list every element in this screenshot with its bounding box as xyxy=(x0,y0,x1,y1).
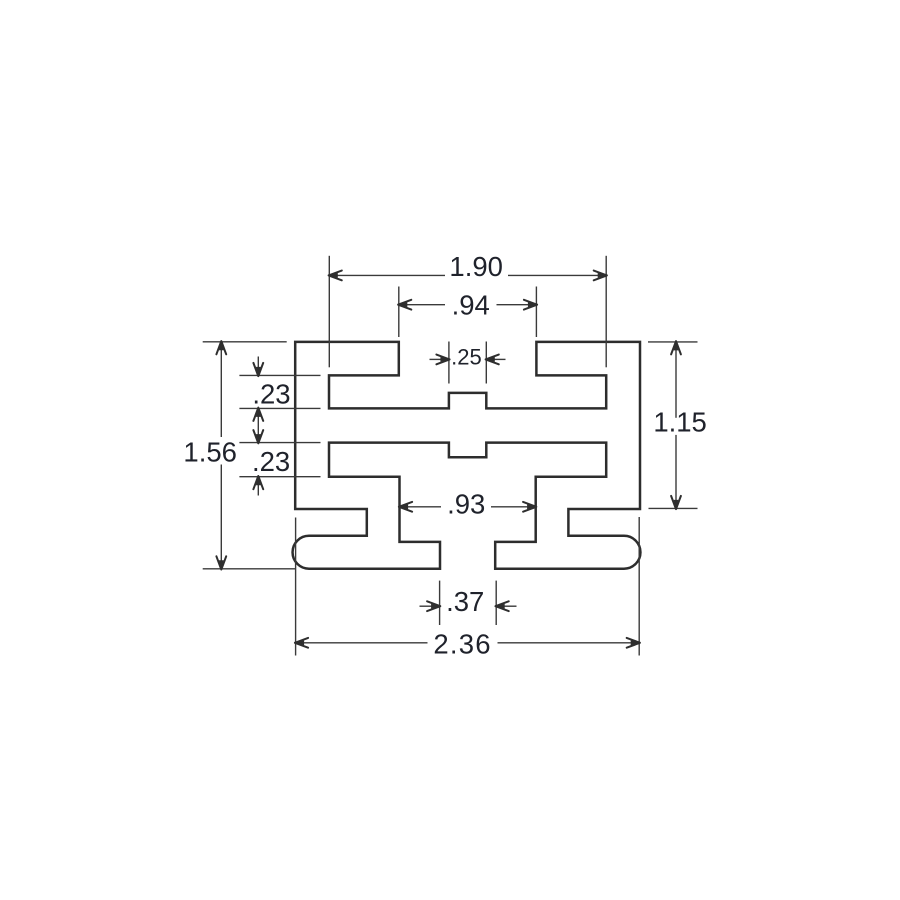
dim .23 stack: extension line 1 xyxy=(239,374,320,376)
svg-text:.23: .23 xyxy=(252,379,290,410)
dim 1.90: extension line left xyxy=(328,256,330,367)
dim .25: extension line left xyxy=(448,342,450,384)
dim 2.36: extension line left xyxy=(295,518,297,656)
svg-text:.23: .23 xyxy=(252,446,290,477)
dim .23 stack: extension line 2 xyxy=(239,407,320,409)
dim 2.36: dimension line xyxy=(296,642,428,644)
svg-text:.94: .94 xyxy=(452,290,490,321)
svg-text:2.36: 2.36 xyxy=(433,629,491,660)
dim 1.56: extension line top xyxy=(203,341,287,343)
svg-text:1.90: 1.90 xyxy=(449,251,503,282)
dim 2.36: arrowhead left xyxy=(295,638,308,648)
dim .94: arrowhead left xyxy=(398,300,411,310)
dim .37: right leader with arrowhead xyxy=(502,605,517,607)
dim 1.56: dimension line xyxy=(220,342,222,437)
dim 1.15: arrowhead top xyxy=(671,341,681,354)
dim 1.56: arrowhead bottom xyxy=(216,556,226,569)
dim 1.90: arrowhead left xyxy=(329,271,342,281)
dim .93: right leader with arrowhead xyxy=(491,506,529,508)
dim 1.15: extension line bottom xyxy=(649,507,698,509)
dim 2.36: extension line right xyxy=(638,517,640,656)
svg-text:.37: .37 xyxy=(446,586,484,617)
dim .94: dimension line xyxy=(399,304,445,306)
dim 1.90: dimension line xyxy=(329,274,445,276)
dim .25: left leader with arrowhead xyxy=(430,358,445,360)
dim .93: left leader with arrowhead xyxy=(406,506,441,508)
dim .94: extension line left xyxy=(398,287,400,338)
dim 1.56: arrowhead top xyxy=(216,341,226,354)
dim 1.90: arrowhead right xyxy=(594,271,607,281)
dim .94: arrowhead right xyxy=(524,300,537,310)
dim .23 upper: top arrow xyxy=(257,357,259,370)
dim .23 stack: extension line 3 xyxy=(239,442,320,444)
svg-text:.25: .25 xyxy=(451,345,482,370)
dim .37: extension line right xyxy=(495,581,497,625)
dim .23 lower: bottom arrow xyxy=(257,483,259,496)
dim 1.15: dimension line xyxy=(675,342,677,418)
dim 1.56: extension line bottom xyxy=(203,568,296,570)
dim 1.90: extension line right xyxy=(605,256,607,367)
dim .25: extension line right xyxy=(485,342,487,384)
extrusion profile outline xyxy=(293,342,641,569)
dim .23 middle: double arrow xyxy=(257,408,259,442)
dim .25: right leader with arrowhead xyxy=(491,358,506,360)
dim .23 stack: extension line 4 xyxy=(239,476,320,478)
svg-text:1.56: 1.56 xyxy=(183,436,237,467)
dim .37: extension line left xyxy=(439,581,441,625)
svg-text:1.15: 1.15 xyxy=(653,407,707,438)
dim .94: extension line right xyxy=(535,287,537,338)
dim .37: left leader with arrowhead xyxy=(420,605,435,607)
dim 1.15: arrowhead bottom xyxy=(671,496,681,509)
svg-text:.93: .93 xyxy=(447,489,485,520)
dim 2.36: arrowhead right xyxy=(627,638,640,648)
dim 1.15: extension line top xyxy=(648,341,698,343)
